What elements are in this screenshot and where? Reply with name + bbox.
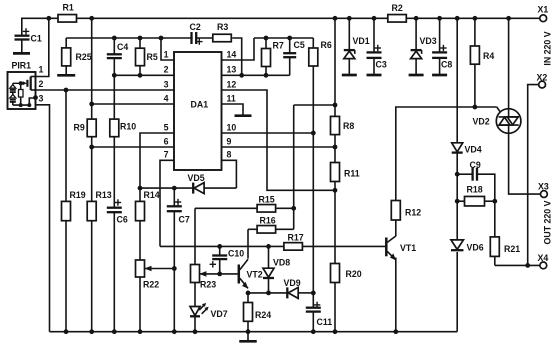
node pin4 left <box>89 102 94 107</box>
node bottom R20 <box>333 329 338 334</box>
svg-text:R16: R16 <box>260 216 276 226</box>
svg-text:R2: R2 <box>392 3 403 13</box>
resistor R24 <box>244 303 253 322</box>
capacitor C2 <box>193 31 195 45</box>
node bottom C6 <box>112 329 117 334</box>
wire VD3 branch <box>415 18 417 50</box>
svg-text:VD1: VD1 <box>353 36 370 46</box>
wire VT1 emitter down <box>395 258 397 332</box>
wire R15 left <box>195 207 257 209</box>
wire R19 branch <box>65 90 67 201</box>
svg-text:X1: X1 <box>538 5 549 15</box>
wire X2 to X4 node <box>528 85 539 266</box>
wire DA1 pin3 line <box>36 89 175 91</box>
svg-text:X3: X3 <box>538 182 549 192</box>
node bus R8 branch <box>333 16 338 21</box>
wire DA1 pin8 to VD5 <box>222 160 237 188</box>
wire R16 to VT2 collector <box>247 229 249 258</box>
svg-text:R15: R15 <box>259 195 275 205</box>
svg-text:IN 220 V: IN 220 V <box>543 31 553 65</box>
svg-text:R11: R11 <box>344 169 360 179</box>
ground bar at pin 11 <box>235 114 252 117</box>
resistor R14 <box>136 201 145 220</box>
node y38 R5 <box>138 36 143 41</box>
svg-text:R21: R21 <box>504 244 520 254</box>
wire C7 branch <box>173 188 175 206</box>
node PIR pin 3 <box>33 95 38 100</box>
wire R5 branch <box>139 38 141 48</box>
wire R21 branch <box>494 201 496 237</box>
svg-text:R9: R9 <box>74 123 85 133</box>
PIR internal top wire <box>13 82 23 84</box>
svg-text:OUT 220 V: OUT 220 V <box>543 200 553 244</box>
svg-text:C11: C11 <box>317 317 333 327</box>
svg-text:R6: R6 <box>321 40 332 50</box>
svg-text:2: 2 <box>39 79 44 89</box>
node C9 left <box>455 172 460 177</box>
svg-text:R23: R23 <box>200 280 216 290</box>
node pin2 R5 <box>138 73 143 78</box>
node y105 R8 <box>333 103 338 108</box>
svg-text:X2: X2 <box>537 73 548 83</box>
PIR internal drain lead <box>31 76 36 78</box>
wire DA1 pin12 loop <box>222 90 336 190</box>
wire R15 R16 right vertical <box>293 105 295 229</box>
PIR internal junction resistor top <box>19 81 23 85</box>
wire main left vertical R9 R13 <box>91 18 93 119</box>
wire R22 wiper line <box>145 268 175 270</box>
PIR internal junction resistor bottom <box>19 103 23 107</box>
wire R15 right <box>276 207 294 209</box>
node bottom R13 <box>89 329 94 334</box>
node bus C1R1 <box>46 16 51 21</box>
node pin9 right <box>333 145 338 150</box>
svg-text:VD6: VD6 <box>467 243 484 253</box>
svg-text:R8: R8 <box>343 121 354 131</box>
wire bottom common bus <box>50 331 458 333</box>
svg-text:R18: R18 <box>467 185 483 195</box>
wire ground stub under R24 <box>247 332 249 341</box>
PIR sensor PIR1 box <box>8 72 36 109</box>
capacitor C9 <box>474 167 476 182</box>
svg-text:C5: C5 <box>294 40 305 50</box>
wire DA1 pin7 down <box>160 160 174 246</box>
svg-text:11: 11 <box>227 93 236 103</box>
svg-text:C3: C3 <box>376 60 387 70</box>
wire R16 left <box>248 228 257 230</box>
svg-text:6: 6 <box>164 136 169 146</box>
wire R23 wiper to VT2 base <box>199 273 238 275</box>
PIR internal pin3 link <box>29 98 35 105</box>
svg-text:7: 7 <box>164 150 169 160</box>
node y38 R7 <box>264 36 269 41</box>
wire C5 branch <box>289 38 291 53</box>
resistor R13 <box>87 201 96 220</box>
wire R8 R11 R20 vertical <box>334 18 336 116</box>
node R17 VD8 <box>266 244 271 249</box>
svg-text:1: 1 <box>39 65 44 75</box>
terminal X3 <box>541 191 548 198</box>
PIR internal source lead <box>31 89 36 91</box>
node pin13 R3 <box>239 73 244 78</box>
wire R3 right to pin13 line <box>232 38 242 75</box>
LED VD7 <box>190 307 200 316</box>
node pin12 R11 <box>333 188 338 193</box>
svg-text:R20: R20 <box>346 269 362 279</box>
svg-text:R24: R24 <box>255 310 271 320</box>
wire DA1 pin6 line <box>92 146 174 148</box>
node y38 pin1 <box>159 36 164 41</box>
svg-text:C10: C10 <box>228 249 244 259</box>
terminal X4 <box>540 262 547 269</box>
resistor R8 <box>331 116 340 134</box>
resistor R1 <box>58 15 77 22</box>
wire R6 long vertical <box>312 38 314 48</box>
diode VD8 <box>263 268 274 277</box>
wire VT2 emitter line <box>248 292 287 294</box>
ground under R25 <box>57 74 75 77</box>
svg-text:R4: R4 <box>483 51 494 61</box>
node X4 X2 <box>525 263 530 268</box>
wire link y105 <box>294 104 335 106</box>
resistor R15 <box>257 205 276 213</box>
svg-text:5: 5 <box>164 122 169 132</box>
svg-text:R13: R13 <box>96 190 112 200</box>
capacitor C5 <box>282 54 297 56</box>
resistor R17 <box>284 243 303 251</box>
wire pin5 to R14 R22 vertical <box>140 133 174 201</box>
resistor R12 <box>391 201 400 221</box>
wire R16 right <box>276 228 294 230</box>
PIR pyro element upper <box>12 83 14 85</box>
svg-text:C9: C9 <box>470 160 481 170</box>
svg-text:3: 3 <box>164 79 169 89</box>
svg-text:R14: R14 <box>144 190 160 200</box>
ground under C1 <box>13 52 30 55</box>
node bus R4 <box>473 16 478 21</box>
node emitter VT2 <box>246 291 251 296</box>
svg-text:R17: R17 <box>288 233 304 243</box>
wire R18 line <box>457 200 464 202</box>
wire R23 top vertical <box>194 208 196 264</box>
op-amp U DA1 box <box>174 52 222 170</box>
wire VD1 branch <box>348 18 350 50</box>
resistor R18 <box>465 196 485 206</box>
wire VD2 branch <box>508 18 510 109</box>
svg-text:10: 10 <box>227 122 237 132</box>
wire VD8 branch <box>268 246 270 268</box>
node wiper C7 <box>172 266 177 271</box>
node base C10 <box>217 272 222 277</box>
transistor VT1 <box>385 238 388 257</box>
svg-text:1: 1 <box>164 50 169 60</box>
svg-text:14: 14 <box>227 50 237 60</box>
node bottom C7 <box>172 329 177 334</box>
wire C9 line <box>457 173 472 175</box>
wire C10 branch <box>219 246 221 255</box>
node R15 right <box>291 206 296 211</box>
capacitor C6 <box>106 209 123 211</box>
node pin2 C4 <box>112 73 117 78</box>
PIR internal gate bar <box>26 80 28 87</box>
wire R17 line <box>160 245 284 247</box>
svg-text:VD8: VD8 <box>273 258 290 268</box>
svg-text:13: 13 <box>227 65 237 75</box>
svg-text:R7: R7 <box>273 41 284 51</box>
svg-text:R3: R3 <box>217 22 228 32</box>
node R18 left <box>455 199 460 204</box>
svg-text:X4: X4 <box>538 253 549 263</box>
capacitor C3 <box>366 54 383 57</box>
resistor R9 <box>87 119 96 137</box>
svg-text:C7: C7 <box>179 215 190 225</box>
diode VD5 <box>192 183 194 194</box>
svg-text:VD4: VD4 <box>465 145 482 155</box>
ground under C3 <box>367 74 382 77</box>
node bus VD1 <box>347 16 352 21</box>
wire top supply bus <box>21 17 540 19</box>
node bus VD3 <box>414 16 419 21</box>
wire DA1 pin14 <box>222 38 255 60</box>
svg-text:R10: R10 <box>120 122 136 132</box>
svg-text:C6: C6 <box>117 215 128 225</box>
resistor R21 <box>490 237 499 257</box>
svg-text:C4: C4 <box>117 42 128 52</box>
ground under VD1 <box>342 74 357 77</box>
wire R12 VT1 vertical <box>396 107 497 201</box>
wire C1 branch <box>21 18 23 35</box>
node VD5 C7 <box>172 186 177 191</box>
resistor R25 <box>62 48 71 66</box>
diode VD9 <box>286 287 288 298</box>
wire R23 VD7 vertical <box>194 283 196 307</box>
node bottom C11 <box>311 329 316 334</box>
node VD5 R14 <box>138 186 143 191</box>
svg-text:PIR1: PIR1 <box>12 61 32 71</box>
resistor R6 <box>309 48 318 66</box>
PIR internal bottom wire <box>13 104 30 106</box>
resistor R16 <box>257 226 276 234</box>
PIR internal gate arrow <box>23 81 27 85</box>
resistor R5 <box>136 48 145 65</box>
capacitor C10 <box>211 257 228 258</box>
wire sub-rail y38 left <box>66 37 213 39</box>
svg-text:3: 3 <box>39 94 44 104</box>
node pin10 right <box>311 131 316 136</box>
terminal X1 <box>540 15 547 22</box>
node pin3 R19 <box>64 88 69 93</box>
diode VD6 <box>451 240 464 250</box>
node bottom VD7 <box>193 329 198 334</box>
PIR internal resistor <box>20 83 22 89</box>
node y38 C5 <box>287 36 292 41</box>
node emitter C11 <box>311 291 316 296</box>
node bottom R19 <box>64 329 69 334</box>
resistor R20 <box>331 264 340 283</box>
svg-text:VT2: VT2 <box>247 270 263 280</box>
resistor R4 <box>470 46 479 64</box>
PIR pyro element lower <box>10 94 16 98</box>
svg-text:9: 9 <box>227 136 232 146</box>
svg-text:8: 8 <box>227 150 232 160</box>
wire C8 branch <box>439 18 441 52</box>
svg-text:VD3: VD3 <box>420 36 437 46</box>
wire DA1 pin10 line <box>222 132 314 134</box>
svg-text:C8: C8 <box>441 60 452 70</box>
node y107 R4 <box>473 105 478 110</box>
resistor R3 <box>213 34 232 42</box>
wire PIR1 pin 1 to bus <box>36 18 49 76</box>
node bus VD4 <box>455 16 460 21</box>
wire VD5 line <box>140 187 236 189</box>
capacitor C7 <box>166 207 183 210</box>
wire sub-rail y38 right <box>254 37 313 39</box>
node emitter VD8 <box>266 291 271 296</box>
node bottom VT1 <box>393 329 398 334</box>
wire R4 branch <box>474 18 476 46</box>
resistor R10 <box>110 119 119 137</box>
node bus C3 <box>372 16 377 21</box>
node pin13 R7 <box>264 73 269 78</box>
node bus left vertical <box>89 16 94 21</box>
wire DA1 pin13 line <box>222 74 290 76</box>
resistor R7 <box>262 49 271 67</box>
node bottom R22 <box>138 329 143 334</box>
svg-text:VD7: VD7 <box>211 309 228 319</box>
node bus VD2 <box>506 16 511 21</box>
wire R25 branch <box>65 38 67 48</box>
node bottom R24 <box>246 329 251 334</box>
transistor VT2 <box>238 265 241 284</box>
svg-text:VD2: VD2 <box>473 117 490 127</box>
wire DA1 pin1 <box>161 38 174 60</box>
ground under C8 <box>432 74 447 77</box>
svg-text:12: 12 <box>227 79 237 89</box>
potentiometer R22 <box>136 260 145 277</box>
wire DA1 pin2 line <box>114 74 174 76</box>
capacitor C8 <box>431 54 448 57</box>
svg-text:2: 2 <box>164 65 169 75</box>
svg-text:VD9: VD9 <box>284 278 301 288</box>
wire R7 branch <box>265 38 267 49</box>
svg-text:R22: R22 <box>143 280 159 290</box>
resistor R2 <box>388 15 407 22</box>
node bus C8 <box>437 16 442 21</box>
wire DA1 pin4 line <box>92 103 174 105</box>
ground under R24 <box>239 340 257 343</box>
svg-text:R19: R19 <box>70 190 86 200</box>
wire C11 branch <box>312 293 314 308</box>
wire DA1 pin11 to common <box>222 104 244 115</box>
wire C3 branch <box>373 18 375 52</box>
node pin6 left <box>89 145 94 150</box>
zener diode VD3 <box>411 51 422 59</box>
PIR internal channel bar <box>30 77 32 91</box>
ground under VD3 <box>409 74 424 77</box>
zener diode VD1 <box>344 51 355 59</box>
node R18 right <box>492 199 497 204</box>
diode VD4 <box>452 143 463 152</box>
svg-text:R1: R1 <box>63 3 74 13</box>
svg-text:R12: R12 <box>405 208 421 218</box>
wire VD4 VD6 vertical <box>456 18 458 143</box>
potentiometer R23 <box>191 265 200 283</box>
svg-text:C1: C1 <box>31 34 42 44</box>
node R17 C10 <box>217 244 222 249</box>
svg-text:4: 4 <box>164 93 169 103</box>
svg-text:VD5: VD5 <box>188 173 205 183</box>
triac VD2 <box>496 109 521 134</box>
wire R24 branch <box>247 293 249 303</box>
resistor R11 <box>331 163 340 182</box>
wire PIR1 pin 3 down to common bus <box>36 98 50 332</box>
terminal X2 <box>539 81 546 88</box>
capacitor C4 <box>106 55 123 57</box>
svg-text:DA1: DA1 <box>191 100 209 110</box>
PIR internal junction pin3 link <box>27 103 31 107</box>
wire VD2 gate lead <box>497 107 502 114</box>
wire X4 line <box>495 264 540 266</box>
resistor R19 <box>62 201 71 220</box>
wire DA1 pin9 line <box>222 146 336 148</box>
capacitor C1 <box>14 37 31 39</box>
svg-text:C2: C2 <box>190 22 201 32</box>
svg-text:VT1: VT1 <box>400 243 416 253</box>
capacitor C11 <box>305 309 322 311</box>
svg-text:R5: R5 <box>147 52 158 62</box>
wire C4 R10 C6 vertical <box>113 38 115 54</box>
svg-text:R25: R25 <box>76 52 92 62</box>
node y38 C4 <box>112 36 117 41</box>
